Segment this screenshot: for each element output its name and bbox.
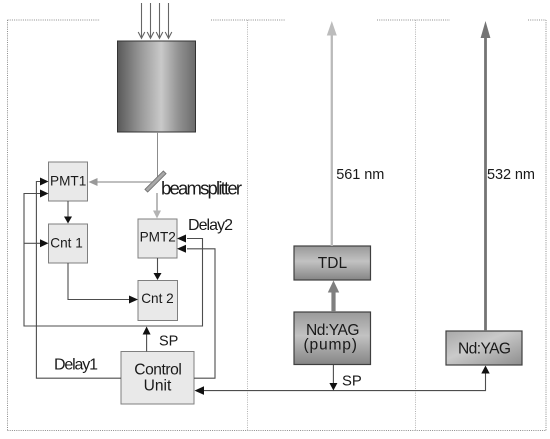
svg-text:532 nm: 532 nm bbox=[487, 167, 535, 183]
svg-text:PMT2: PMT2 bbox=[140, 229, 176, 244]
svg-text:Nd:YAG: Nd:YAG bbox=[458, 340, 511, 357]
svg-text:Unit: Unit bbox=[144, 378, 172, 395]
svg-text:Cnt 2: Cnt 2 bbox=[141, 291, 174, 306]
svg-text:SP: SP bbox=[159, 333, 178, 349]
svg-text:beamsplitter: beamsplitter bbox=[161, 177, 242, 198]
svg-text:PMT1: PMT1 bbox=[50, 174, 86, 189]
svg-text:TDL: TDL bbox=[318, 255, 348, 272]
svg-text:Control: Control bbox=[134, 361, 182, 378]
svg-text:Delay1: Delay1 bbox=[54, 357, 98, 374]
svg-text:Delay2: Delay2 bbox=[188, 217, 233, 234]
svg-text:Cnt 1: Cnt 1 bbox=[50, 236, 83, 251]
svg-text:561 nm: 561 nm bbox=[336, 167, 384, 183]
svg-text:(pump): (pump) bbox=[304, 337, 358, 354]
svg-text:SP: SP bbox=[342, 373, 362, 389]
